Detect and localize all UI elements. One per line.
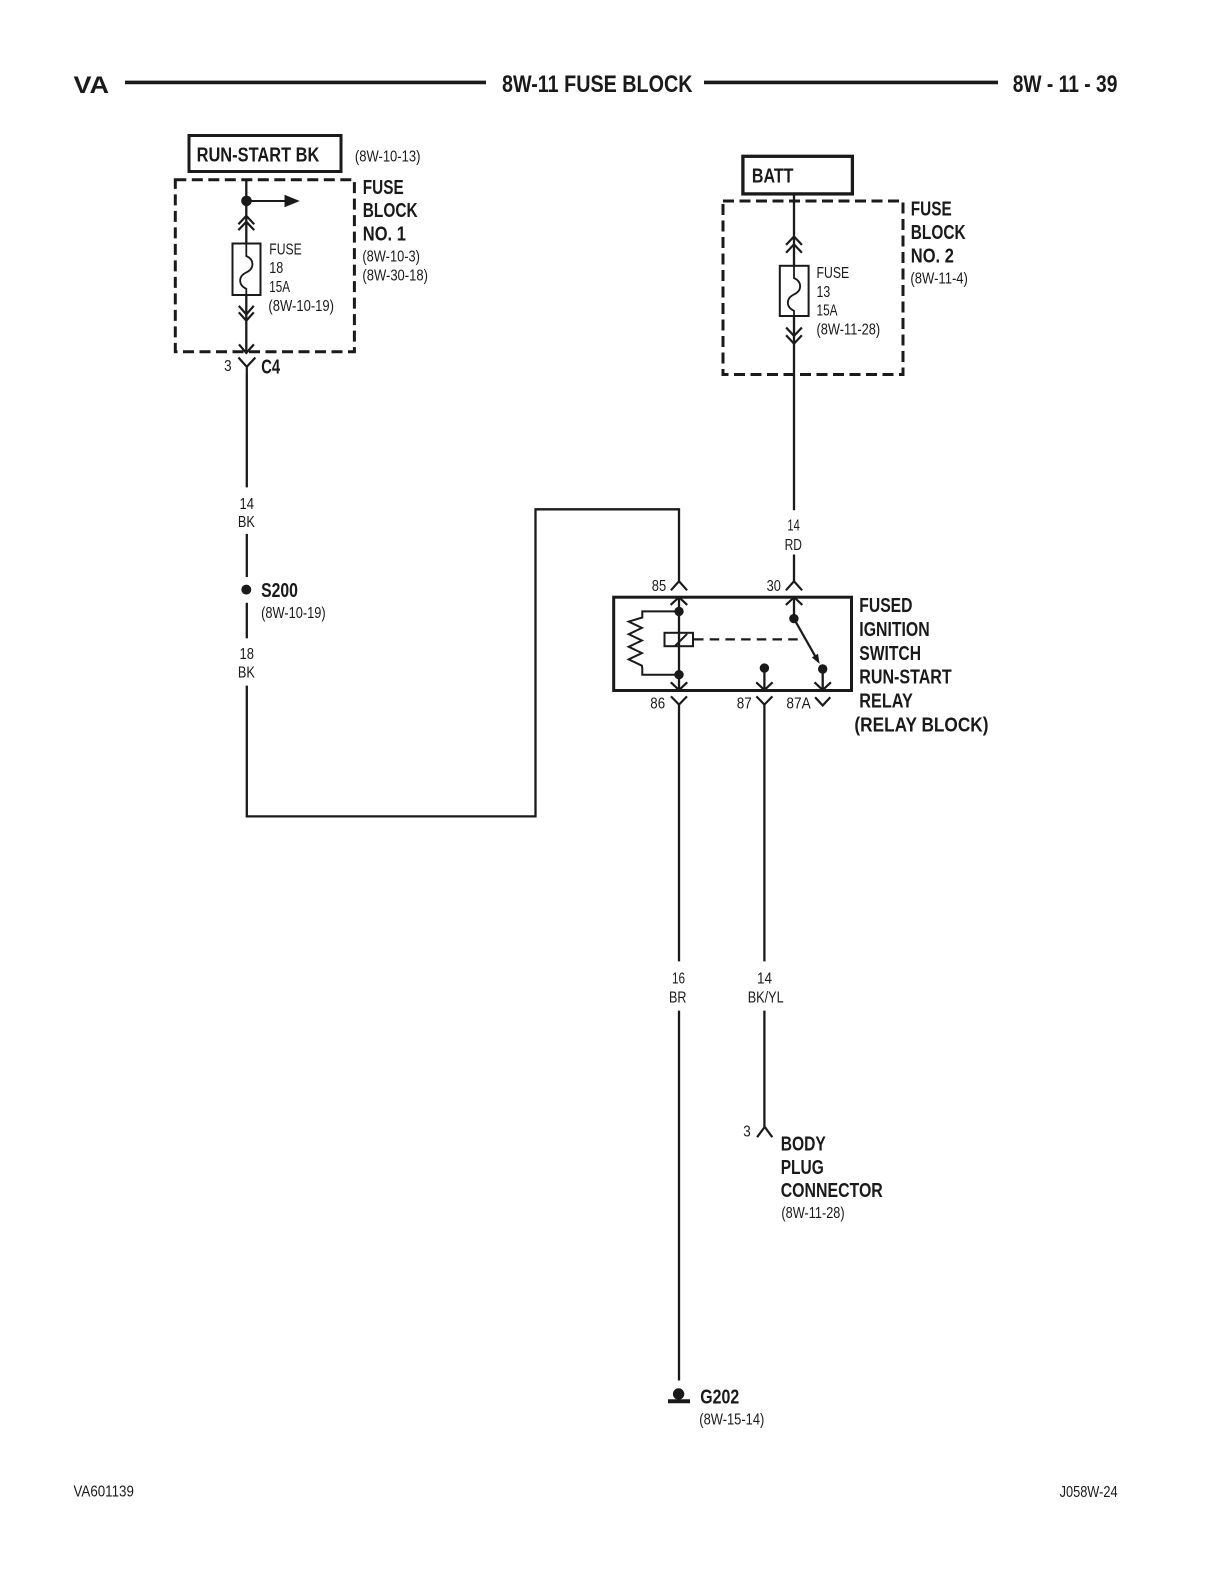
svg-text:FUSE: FUSE bbox=[817, 265, 850, 282]
double chevrons above fuse 13 bbox=[786, 237, 802, 253]
node RUN-START BK (boxed label) bbox=[189, 136, 341, 172]
junction dot inside fuse block no.1 bbox=[241, 196, 252, 207]
svg-text:NO. 1: NO. 1 bbox=[363, 223, 406, 245]
wire pin 87 down to body plug connector bbox=[763, 1011, 765, 1127]
svg-text:RD: RD bbox=[785, 537, 802, 554]
svg-text:(8W-10-19): (8W-10-19) bbox=[268, 298, 334, 315]
svg-text:VA: VA bbox=[74, 72, 110, 99]
svg-text:(8W-30-18): (8W-30-18) bbox=[362, 267, 428, 284]
double chevrons (connector continuation) above fuse 18 bbox=[238, 216, 254, 230]
svg-text:G202: G202 bbox=[700, 1387, 739, 1409]
wire segment to splice bbox=[246, 534, 248, 577]
svg-text:(8W-15-14): (8W-15-14) bbox=[699, 1412, 764, 1429]
fuse block no.2 dashed box bbox=[723, 201, 903, 375]
svg-text:(8W-10-19): (8W-10-19) bbox=[261, 605, 326, 622]
svg-text:FUSED: FUSED bbox=[859, 595, 912, 617]
relay coil box symbol bbox=[665, 633, 694, 646]
header title 8W-11 FUSE BLOCK bbox=[502, 71, 693, 98]
wire pin 86 down (upper segment) bbox=[678, 705, 680, 962]
pin label 30 bbox=[767, 578, 781, 595]
feed arrow to other circuits bbox=[247, 195, 300, 207]
svg-text:16: 16 bbox=[672, 970, 685, 987]
svg-text:RUN-START: RUN-START bbox=[859, 667, 951, 689]
wire BATT down to fuse 13 bbox=[793, 194, 795, 266]
label FUSE 13 15A (8W-11-28) bbox=[817, 265, 881, 338]
svg-text:86: 86 bbox=[650, 695, 665, 712]
switch pivot dot (pin 30) bbox=[789, 614, 798, 623]
label G202 (8W-15-14) bbox=[699, 1387, 764, 1429]
pin 86 connector below relay bbox=[671, 696, 687, 704]
label BODY PLUG CONNECTOR (8W-11-28) bbox=[781, 1133, 884, 1222]
switch armature with arrowhead bbox=[794, 619, 820, 664]
svg-text:(8W-11-4): (8W-11-4) bbox=[910, 271, 968, 288]
svg-text:BODY: BODY bbox=[781, 1133, 827, 1155]
wire routed down, right and up to relay pin 85 bbox=[247, 509, 679, 816]
relay internal wire pin85 to pin86 bbox=[678, 597, 680, 690]
pin 30 internal wire bbox=[793, 597, 795, 618]
svg-text:14: 14 bbox=[787, 518, 800, 535]
header rule left bbox=[125, 81, 486, 85]
open arrowhead at fuse block exit bbox=[239, 344, 254, 353]
pin 87 connector below relay bbox=[756, 696, 772, 704]
svg-text:18: 18 bbox=[269, 260, 283, 277]
pin 30 entry arrowhead inside relay bbox=[786, 597, 802, 605]
svg-text:14: 14 bbox=[240, 496, 255, 513]
pin number 3 bbox=[743, 1123, 751, 1140]
svg-text:(RELAY BLOCK): (RELAY BLOCK) bbox=[854, 715, 988, 737]
svg-text:VA601139: VA601139 bbox=[74, 1483, 134, 1500]
pin 86 exit arrowhead inside relay bbox=[671, 682, 687, 690]
body plug connector pin 3 symbol bbox=[757, 1127, 772, 1137]
svg-text:30: 30 bbox=[767, 578, 781, 595]
header rule right bbox=[704, 81, 998, 85]
svg-text:87: 87 bbox=[737, 695, 752, 712]
footer drawing code J058W-24 bbox=[1060, 1484, 1118, 1501]
wire below fuse 18 bbox=[245, 295, 247, 352]
svg-text:FUSE: FUSE bbox=[911, 199, 952, 221]
pin 87A connector below relay bbox=[815, 697, 830, 705]
svg-text:BK/YL: BK/YL bbox=[748, 990, 784, 1007]
svg-text:SWITCH: SWITCH bbox=[859, 643, 921, 665]
fuse F13 symbol bbox=[780, 266, 809, 316]
header page number 8W - 11 - 39 bbox=[1013, 71, 1118, 98]
svg-text:BLOCK: BLOCK bbox=[911, 222, 966, 244]
svg-text:14: 14 bbox=[757, 970, 772, 987]
svg-text:BATT: BATT bbox=[752, 166, 794, 188]
dashed actuation line from coil to switch bbox=[694, 638, 804, 640]
relay coil (zigzag winding) bbox=[629, 611, 679, 674]
wire from fuse block no.1 top edge down to fuse 18 bbox=[245, 180, 247, 244]
svg-text:(8W-11-28): (8W-11-28) bbox=[817, 322, 881, 339]
pin 87 contact dot bbox=[760, 663, 769, 672]
label (8W-10-13) bbox=[355, 149, 421, 166]
svg-text:FUSE: FUSE bbox=[363, 177, 404, 199]
header text VA bbox=[74, 72, 110, 99]
svg-text:NO. 2: NO. 2 bbox=[911, 245, 954, 267]
svg-text:RUN-START BK: RUN-START BK bbox=[197, 145, 320, 167]
pin label 87A bbox=[786, 696, 811, 713]
label S200 (8W-10-19) bbox=[261, 580, 326, 622]
splice S200 dot bbox=[241, 585, 251, 595]
wire pin 87 down (upper segment) bbox=[763, 705, 765, 962]
wire below splice bbox=[246, 603, 248, 639]
wire C4 down (upper segment) bbox=[246, 374, 248, 487]
wire label 14 BK bbox=[238, 496, 255, 531]
svg-text:15A: 15A bbox=[269, 279, 290, 296]
svg-text:85: 85 bbox=[652, 578, 667, 595]
pin 87A contact dot bbox=[818, 664, 827, 673]
svg-text:BK: BK bbox=[238, 665, 255, 682]
connector C4 pin 3 symbol bbox=[238, 358, 255, 375]
connector name C4 bbox=[261, 356, 281, 378]
wire label 14 BK/YL bbox=[748, 970, 784, 1006]
svg-text:IGNITION: IGNITION bbox=[859, 619, 929, 641]
svg-text:BR: BR bbox=[669, 990, 686, 1007]
svg-text:BK: BK bbox=[238, 514, 255, 531]
svg-text:RELAY: RELAY bbox=[859, 691, 913, 713]
svg-text:(8W-11-28): (8W-11-28) bbox=[781, 1205, 844, 1222]
relay block box bbox=[614, 597, 852, 690]
svg-text:FUSE: FUSE bbox=[269, 241, 301, 258]
wire pin 86 down to ground bbox=[678, 1011, 680, 1381]
pin 87 internal wire bbox=[763, 668, 765, 690]
svg-text:15A: 15A bbox=[817, 303, 838, 320]
svg-text:CONNECTOR: CONNECTOR bbox=[781, 1180, 884, 1202]
wire fuse 13 down to relay pin 30 (upper segment) bbox=[793, 316, 795, 510]
svg-text:8W-11 FUSE BLOCK: 8W-11 FUSE BLOCK bbox=[502, 71, 693, 98]
label FUSE BLOCK NO. 1 bbox=[362, 177, 428, 284]
node BATT (boxed label) bbox=[743, 156, 853, 194]
fuse block no.1 dashed box bbox=[175, 180, 354, 352]
pin label 87 bbox=[737, 695, 752, 712]
pin 85 entry arrowhead inside relay bbox=[671, 597, 688, 605]
svg-text:BLOCK: BLOCK bbox=[363, 200, 418, 222]
wire label 18 BK bbox=[238, 646, 255, 681]
svg-text:PLUG: PLUG bbox=[781, 1157, 824, 1179]
label FUSE BLOCK NO. 2 bbox=[910, 199, 968, 288]
pin number 3 bbox=[224, 358, 232, 375]
label FUSED IGNITION SWITCH RUN-START RELAY (RELAY BLOCK) bbox=[854, 595, 988, 737]
pin 87A exit arrowhead inside relay bbox=[815, 682, 831, 690]
double chevrons below fuse 13 bbox=[786, 328, 802, 344]
pin 87 exit arrowhead inside relay bbox=[756, 682, 772, 690]
pin 87A internal wire bbox=[822, 669, 824, 691]
pin 85 connector above relay bbox=[671, 581, 687, 590]
label FUSE 18 15A (8W-10-19) bbox=[268, 241, 334, 314]
svg-text:J058W-24: J058W-24 bbox=[1060, 1484, 1118, 1501]
footer sheet code VA601139 bbox=[74, 1483, 134, 1500]
svg-text:8W - 11 - 39: 8W - 11 - 39 bbox=[1013, 71, 1118, 98]
pin label 86 bbox=[650, 695, 665, 712]
svg-text:87A: 87A bbox=[786, 696, 811, 713]
svg-text:C4: C4 bbox=[261, 356, 281, 378]
wire label 16 BR bbox=[669, 970, 686, 1006]
svg-text:18: 18 bbox=[240, 646, 255, 663]
svg-text:(8W-10-3): (8W-10-3) bbox=[362, 249, 420, 266]
svg-text:S200: S200 bbox=[261, 580, 298, 602]
svg-text:3: 3 bbox=[224, 358, 232, 375]
svg-text:(8W-10-13): (8W-10-13) bbox=[355, 149, 421, 166]
fuse F18 symbol bbox=[233, 244, 261, 296]
svg-text:3: 3 bbox=[743, 1123, 751, 1140]
wire label 14 RD bbox=[785, 518, 802, 555]
svg-text:13: 13 bbox=[817, 284, 831, 301]
ground G202 symbol bbox=[668, 1388, 690, 1401]
pin label 85 bbox=[652, 578, 667, 595]
wire segment to pin 30 bbox=[793, 555, 795, 582]
pin 30 connector above relay bbox=[786, 581, 802, 590]
relay coil junction dots bbox=[674, 607, 683, 680]
double chevrons below fuse 18 bbox=[239, 306, 254, 321]
